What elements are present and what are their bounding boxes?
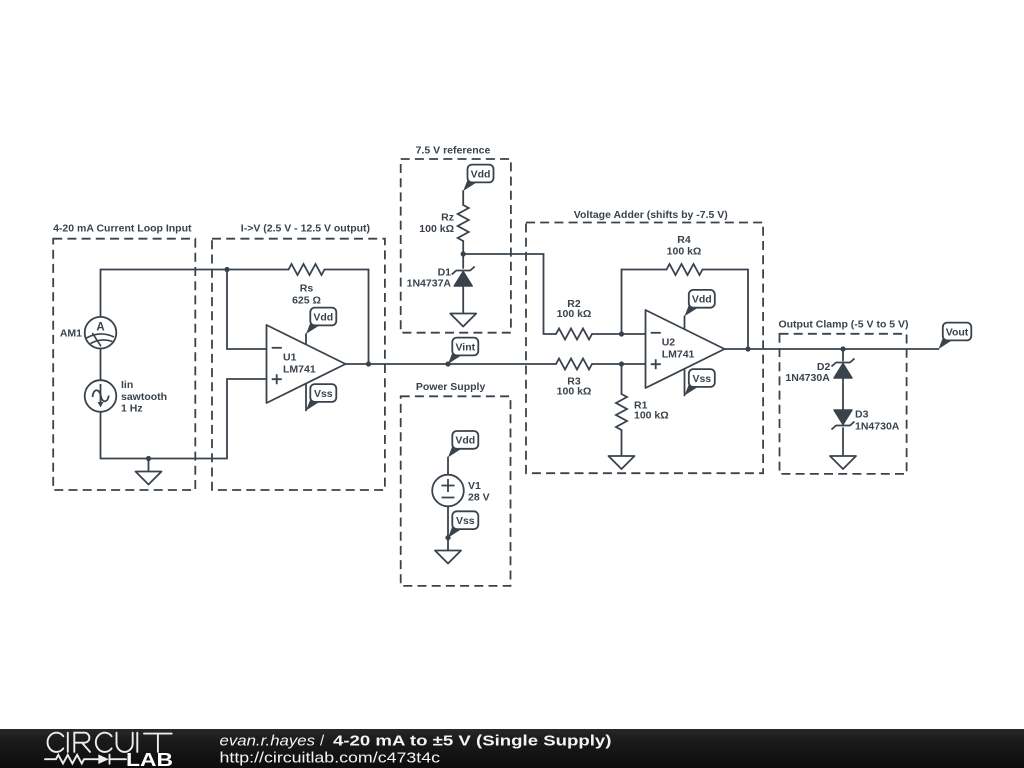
svg-text:V1: V1 — [468, 480, 481, 492]
svg-text:LM741: LM741 — [283, 364, 316, 376]
svg-text:100 kΩ: 100 kΩ — [419, 223, 454, 235]
svg-text:1N4730A: 1N4730A — [855, 421, 900, 433]
svg-text:LM741: LM741 — [662, 348, 695, 360]
svg-text:U1: U1 — [283, 352, 297, 364]
svg-text:4-20 mA to ±5 V (Single Supply: 4-20 mA to ±5 V (Single Supply) — [333, 732, 612, 749]
svg-text:Vdd: Vdd — [692, 294, 712, 306]
svg-text:100 kΩ: 100 kΩ — [634, 409, 669, 421]
svg-text:1N4730A: 1N4730A — [785, 372, 830, 384]
svg-text:Vdd: Vdd — [313, 311, 333, 323]
svg-text:D1: D1 — [438, 266, 452, 278]
svg-text:7.5 V reference: 7.5 V reference — [416, 145, 491, 157]
svg-text:1 Hz: 1 Hz — [121, 402, 143, 414]
svg-text:Vss: Vss — [456, 515, 475, 527]
svg-text:28 V: 28 V — [468, 492, 490, 504]
svg-text:D3: D3 — [855, 409, 869, 421]
svg-text:R4: R4 — [677, 234, 691, 246]
svg-text:100 kΩ: 100 kΩ — [557, 386, 592, 398]
svg-text:Rz: Rz — [441, 212, 454, 224]
svg-text:1N4737A: 1N4737A — [407, 278, 452, 290]
svg-text:625 Ω: 625 Ω — [292, 294, 321, 306]
svg-text:Power Supply: Power Supply — [416, 381, 486, 393]
svg-text:A: A — [96, 322, 104, 334]
svg-text:Output Clamp (-5 V to 5 V): Output Clamp (-5 V to 5 V) — [778, 319, 908, 331]
svg-text:I->V (2.5 V - 12.5 V output): I->V (2.5 V - 12.5 V output) — [241, 223, 370, 235]
svg-text:Vdd: Vdd — [471, 168, 491, 180]
svg-text:Vint: Vint — [455, 341, 475, 353]
svg-text:U2: U2 — [662, 336, 676, 348]
svg-text:Voltage Adder (shifts by -7.5: Voltage Adder (shifts by -7.5 V) — [574, 209, 728, 221]
svg-text:Vss: Vss — [692, 373, 711, 385]
svg-text:Iin: Iin — [121, 379, 133, 391]
svg-text:4-20 mA Current Loop Input: 4-20 mA Current Loop Input — [53, 223, 192, 235]
svg-text:Rs: Rs — [300, 283, 314, 295]
svg-text:Vout: Vout — [946, 326, 969, 338]
svg-text:Vss: Vss — [314, 388, 333, 400]
svg-text:Vdd: Vdd — [455, 435, 475, 447]
svg-text:100 kΩ: 100 kΩ — [557, 308, 592, 320]
svg-text:evan.r.hayes: evan.r.hayes — [220, 732, 316, 749]
svg-text:100 kΩ: 100 kΩ — [667, 245, 702, 257]
svg-text:AM1: AM1 — [60, 328, 82, 340]
svg-text:sawtooth: sawtooth — [121, 391, 167, 403]
svg-text:LAB: LAB — [126, 750, 173, 768]
svg-text:http://circuitlab.com/c473t4c: http://circuitlab.com/c473t4c — [220, 750, 441, 767]
